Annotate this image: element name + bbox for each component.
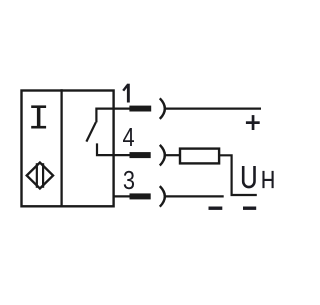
wire pin 4 to load resistor [165,154,180,156]
connector arc pin 4 [160,145,165,166]
inductive symbol I [31,105,46,128]
label H subscript [264,171,273,188]
wire pin 1 to plus [165,107,262,109]
minus sign left [209,207,223,210]
wire pin 3 to minus [165,195,224,197]
terminal pin 3 [130,193,151,199]
minus sign right [243,207,256,210]
proximity sensor diamond [27,163,53,189]
terminal pin 4 [130,152,151,158]
pin label 1 [123,84,130,103]
diamond inner line right [42,163,44,188]
svg-text:4: 4 [123,123,135,152]
sensor body divider [60,89,62,207]
plus sign [246,115,260,130]
wire resistor down to minus [220,155,257,195]
load resistor [180,149,219,164]
connector arc pin 3 [160,186,165,207]
pin 3 wire from box [113,195,130,197]
switch bottom stub and wire (pin 4 side) [97,143,130,155]
connector arc pin 1 [160,98,165,119]
diamond inner line left [36,163,38,188]
svg-text:3: 3 [123,166,135,195]
switch blade [86,122,96,141]
label U [243,166,254,187]
terminal pin 1 [129,106,151,112]
switch top wire and stub (pin 1 side) [96,109,130,123]
sensor body outline [22,91,114,207]
